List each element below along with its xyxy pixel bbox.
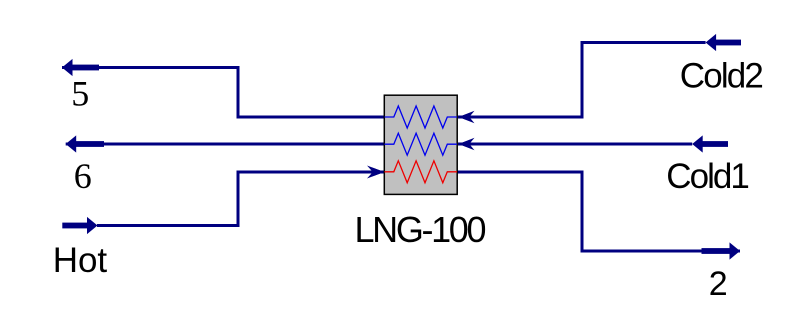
wire stream 6 (block left middle to arrow 6): [66, 143, 385, 146]
wire stream Hot (arrow Hot to block left bottom): [97, 172, 384, 226]
wire stream 5 (block left top to arrow 5): [62, 68, 385, 118]
svg-text:Hot: Hot: [53, 241, 108, 280]
Hot inlet barbed arrow at block: [367, 166, 384, 179]
Cold2 arrowhead: [706, 34, 717, 51]
svg-text:LNG-100: LNG-100: [355, 209, 487, 250]
Cold1 arrow shaft: [699, 141, 728, 147]
Cold1 arrowhead: [692, 135, 703, 152]
stream 6 arrowhead: [66, 135, 77, 152]
svg-text:6: 6: [74, 156, 92, 196]
wire stream Cold1 (arrow Cold1 to block right middle): [458, 143, 692, 146]
zigzag coil top (blue): [385, 106, 458, 128]
Cold1 inlet barbed arrow at block: [459, 138, 475, 150]
Cold2 arrow shaft: [712, 40, 741, 46]
wire stream 2 (block right bottom to arrow 2): [457, 172, 740, 251]
stream 6 arrow shaft: [75, 141, 104, 147]
Hot arrowhead: [87, 217, 98, 234]
stream 5 arrow shaft: [70, 65, 99, 71]
zigzag coil middle (blue): [385, 133, 458, 155]
svg-text:Cold1: Cold1: [666, 157, 750, 196]
zigzag coil bottom (red): [385, 161, 458, 183]
stream 5 arrowhead: [62, 59, 73, 76]
Cold2 inlet barbed arrow at block: [459, 111, 475, 123]
svg-text:5: 5: [71, 73, 89, 113]
LNG exchanger block LNG-100: [384, 95, 457, 194]
svg-text:2: 2: [709, 265, 728, 303]
Hot arrow shaft: [62, 223, 89, 229]
svg-text:Cold2: Cold2: [680, 57, 764, 96]
stream 2 arrow shaft: [702, 248, 731, 254]
wire stream Cold2 (arrow Cold2 to block right top): [458, 43, 706, 118]
stream 2 arrowhead: [730, 242, 741, 259]
